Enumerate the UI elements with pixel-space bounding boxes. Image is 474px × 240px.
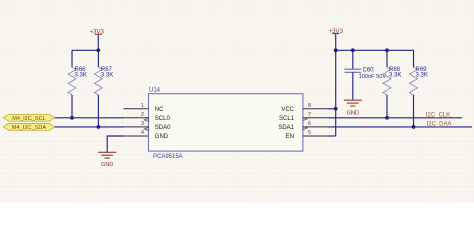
svg-text:C60: C60 bbox=[363, 67, 375, 73]
resistor R66 bbox=[68, 50, 87, 118]
junction at left rail / +3V3 bbox=[96, 48, 100, 52]
svg-text:M4_I2C_SDA: M4_I2C_SDA bbox=[12, 125, 46, 131]
svg-text:6: 6 bbox=[308, 121, 311, 127]
wire right rail bbox=[336, 49, 414, 51]
svg-text:3.3K: 3.3K bbox=[101, 72, 113, 78]
junction rail / C60 bbox=[351, 48, 355, 52]
junction R69 / I2C_DAA wire bbox=[412, 125, 416, 129]
resistor R67 bbox=[94, 50, 113, 127]
power +3V3 left bbox=[89, 29, 104, 36]
svg-text:8: 8 bbox=[308, 103, 311, 109]
svg-text:U14: U14 bbox=[149, 88, 161, 94]
svg-text:3: 3 bbox=[141, 121, 144, 127]
wire EN pin5 to vertical bbox=[328, 135, 336, 137]
svg-text:I2C_CLK: I2C_CLK bbox=[426, 113, 450, 119]
svg-text:1: 1 bbox=[141, 103, 144, 109]
power +3V3 right bbox=[329, 28, 344, 35]
wire pin4 to ground bbox=[107, 136, 123, 152]
svg-text:EN: EN bbox=[286, 134, 294, 140]
pin 1 NC bbox=[124, 103, 165, 113]
IC U14 body bbox=[149, 88, 303, 160]
pin 8 VCC bbox=[281, 103, 328, 113]
pin 7 SCL1 bbox=[279, 112, 328, 122]
svg-text:SCL1: SCL1 bbox=[279, 116, 295, 122]
port M4_I2C_SCL bbox=[3, 114, 54, 122]
capacitor C60 bbox=[345, 50, 387, 100]
svg-text:GND: GND bbox=[347, 110, 359, 116]
svg-text:SCL0: SCL0 bbox=[155, 116, 171, 122]
svg-text:3.3K: 3.3K bbox=[389, 72, 401, 78]
svg-text:GND: GND bbox=[101, 162, 113, 168]
wire I2C_DAA bbox=[328, 126, 472, 128]
wire M4_I2C_SDA bbox=[55, 126, 124, 128]
svg-text:2: 2 bbox=[141, 112, 144, 118]
svg-text:3.3K: 3.3K bbox=[75, 72, 87, 78]
resistor R68 bbox=[383, 50, 401, 118]
wire I2C_CLK bbox=[328, 117, 462, 119]
svg-text:M4_I2C_SCL: M4_I2C_SCL bbox=[12, 116, 46, 122]
svg-text:100nF 50V: 100nF 50V bbox=[359, 74, 387, 80]
wire VCC pin8 to vertical bbox=[328, 108, 336, 110]
svg-text:GND: GND bbox=[155, 134, 169, 140]
svg-text:PCA9515A: PCA9515A bbox=[153, 154, 183, 160]
pin 2 SCL0 bbox=[124, 112, 170, 122]
wire from +3V3 right down to EN bbox=[335, 34, 337, 136]
pin 5 EN bbox=[286, 130, 328, 140]
ground GND left bbox=[98, 152, 116, 168]
svg-text:7: 7 bbox=[308, 112, 311, 118]
svg-text:NC: NC bbox=[155, 107, 164, 113]
port M4_I2C_SDA bbox=[3, 124, 54, 132]
wire M4_I2C_SCL bbox=[55, 117, 124, 119]
junction VCC / vertical bbox=[334, 107, 338, 111]
resistor R69 bbox=[410, 50, 428, 127]
svg-text:3.3K: 3.3K bbox=[416, 72, 428, 78]
svg-text:5: 5 bbox=[308, 130, 311, 136]
junction R68 / I2C_CLK wire bbox=[385, 116, 389, 120]
pin 3 SDA0 bbox=[124, 121, 171, 131]
pin 6 SDA1 bbox=[278, 121, 328, 131]
junction rail / R68 bbox=[385, 48, 389, 52]
svg-text:I2C_DAA: I2C_DAA bbox=[427, 122, 452, 128]
svg-text:SDA1: SDA1 bbox=[278, 125, 294, 131]
junction R67 / SDA wire bbox=[97, 125, 101, 129]
junction R66 / SCL wire bbox=[70, 116, 74, 120]
svg-text:VCC: VCC bbox=[281, 107, 294, 113]
wire from +3V3 left to rail bbox=[97, 35, 99, 51]
wire left rail bbox=[72, 49, 98, 51]
pin 4 GND bbox=[124, 130, 169, 140]
ground GND right bbox=[344, 100, 362, 116]
svg-text:SDA0: SDA0 bbox=[155, 125, 171, 131]
junction rail / +3V3 stem bbox=[334, 48, 338, 52]
svg-text:4: 4 bbox=[141, 130, 144, 136]
